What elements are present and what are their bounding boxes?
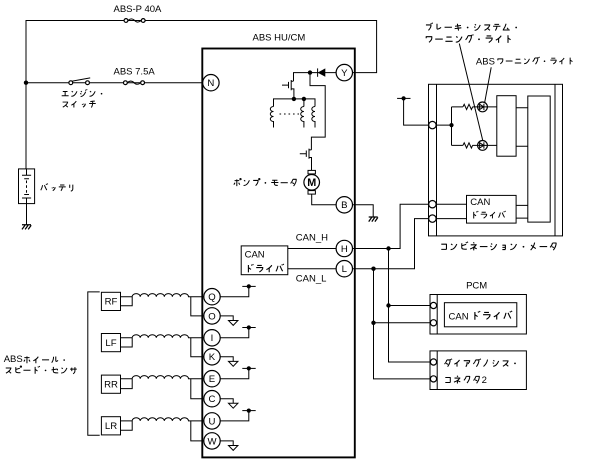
wire meter warn internal — [437, 107, 497, 145]
svg-text:ABS: ABS — [4, 354, 23, 365]
connector pin diag H — [430, 359, 436, 365]
svg-text:H: H — [341, 244, 348, 255]
svg-text:Y: Y — [341, 68, 348, 79]
label battery — [41, 183, 73, 191]
meter inner block 1 — [497, 96, 516, 157]
terminal L — [336, 261, 352, 277]
label combination meter — [441, 242, 556, 251]
ground battery — [22, 225, 31, 230]
wire E supply stub — [220, 368, 249, 378]
callout line brake warning — [459, 44, 483, 141]
connector pin meter warn feed — [429, 121, 436, 128]
fuse ABS 7.5A — [114, 67, 156, 85]
wire sensor RR leads — [121, 379, 133, 389]
wire battery to ground — [26, 204, 28, 225]
svg-text:ABS HU/CM: ABS HU/CM — [253, 33, 306, 44]
resistor ABS warn — [463, 143, 473, 148]
supply stub U — [242, 409, 255, 413]
PCM box — [430, 295, 526, 335]
supply stub I — [242, 325, 255, 329]
svg-text:K: K — [209, 352, 216, 363]
wire CAN_H — [288, 248, 336, 250]
wire B to ground — [353, 205, 374, 217]
wire Y to diode to node — [294, 73, 337, 150]
fuse ABS-P 40A — [114, 4, 163, 22]
sensor LR box — [101, 417, 120, 435]
terminal Q — [204, 289, 220, 305]
svg-text:CAN_L: CAN_L — [296, 274, 327, 285]
svg-text:I: I — [211, 333, 214, 344]
label diagnosis connector 2 — [445, 359, 516, 386]
label pump motor — [234, 178, 296, 186]
terminal N — [203, 75, 219, 91]
body ground arrow C — [229, 403, 238, 408]
lamp brake system warning light — [478, 141, 488, 151]
supply stub E — [242, 366, 255, 370]
wire CAN_L — [288, 268, 336, 270]
connector pin diag L — [430, 376, 436, 382]
terminal H — [336, 240, 352, 256]
wire O to body ground — [220, 316, 233, 321]
svg-text:LR: LR — [105, 421, 117, 432]
terminal W — [204, 433, 220, 449]
wire meter feed — [404, 98, 429, 125]
node PCM H — [386, 303, 390, 307]
node PCM L — [371, 321, 375, 325]
diode D1 — [318, 68, 326, 76]
resistor brake warn — [463, 104, 473, 109]
wire sensor LR leads — [121, 421, 133, 430]
ground B terminal — [369, 217, 378, 222]
svg-text:LF: LF — [105, 338, 116, 349]
ABS HU/CM box — [202, 49, 354, 458]
wire meter CAN wires — [437, 204, 528, 218]
svg-text:W: W — [207, 436, 217, 447]
diagnosis connector box — [430, 351, 526, 390]
node L branch — [371, 267, 375, 271]
CAN driver box meter — [467, 195, 517, 223]
sensor RR box — [101, 375, 120, 393]
wire C to body ground — [220, 399, 233, 404]
CAN driver box ABS — [241, 246, 288, 275]
svg-text:CAN: CAN — [245, 249, 265, 260]
terminal U — [204, 413, 220, 429]
wire ignition feed to N — [26, 82, 203, 84]
meter inner block 2 — [528, 96, 550, 222]
coil L3 solenoid valve — [312, 107, 315, 128]
node diode junction — [308, 70, 312, 74]
bracket sensors — [88, 292, 100, 435]
svg-text:U: U — [209, 416, 216, 427]
terminal Y — [336, 64, 352, 80]
supply stub meter feed — [397, 96, 410, 100]
svg-text:B: B — [341, 200, 347, 211]
terminal C — [204, 391, 220, 407]
svg-text:2: 2 — [482, 375, 487, 386]
motor M pump motor — [304, 170, 320, 194]
node bus J2 — [302, 97, 306, 101]
wire sensor LF twisted pair — [132, 335, 204, 357]
terminal E — [204, 371, 220, 387]
wire sensor LR twisted pair — [132, 418, 204, 441]
svg-text:E: E — [209, 374, 215, 385]
wire Q supply stub — [220, 286, 249, 296]
wire K to body ground — [220, 357, 233, 362]
label ABS wheel speed sensor — [4, 354, 77, 374]
wire block1 to block2 — [516, 108, 528, 147]
battery — [19, 169, 35, 204]
wire I supply stub — [220, 328, 249, 338]
body ground arrow O — [229, 321, 238, 326]
svg-text:ABS-P 40A: ABS-P 40A — [114, 4, 163, 15]
wire W to body ground — [220, 441, 233, 446]
coil L1 solenoid valve — [270, 107, 273, 128]
wire sensor RF leads — [121, 297, 133, 306]
svg-text:O: O — [208, 311, 215, 322]
svg-text:L: L — [342, 264, 348, 275]
wire H to PCM/diag — [389, 249, 431, 363]
supply stub Q — [242, 284, 255, 288]
terminal O — [204, 308, 220, 324]
body ground arrow W — [229, 446, 238, 451]
coil L2 solenoid valve — [301, 107, 304, 128]
node meter warn split — [449, 123, 453, 127]
connector pin meter CAN H — [429, 201, 436, 208]
sensor RF box — [101, 292, 120, 310]
connector pin meter CAN L — [429, 215, 436, 222]
node battery junction — [24, 81, 28, 85]
wire U supply stub — [220, 411, 249, 421]
lamp ABS warning light — [478, 102, 488, 112]
svg-text:ABS: ABS — [476, 56, 495, 67]
terminal I — [204, 330, 220, 346]
wire L to PCM/diag — [374, 269, 431, 379]
label brake system warning light — [426, 23, 517, 43]
sensor LF box — [101, 334, 120, 352]
label engine switch — [62, 89, 103, 107]
combination meter box — [429, 84, 563, 236]
connector pin PCM L — [430, 320, 436, 326]
wire solenoid bus — [274, 99, 316, 107]
svg-text:CAN: CAN — [470, 197, 490, 208]
wire dotted more-coils — [280, 113, 300, 115]
body ground arrow K — [229, 361, 238, 366]
svg-text:Q: Q — [208, 292, 215, 303]
label ABS warning light — [476, 56, 573, 67]
transistor Q2 motor driver — [300, 149, 312, 171]
svg-text:ABS 7.5A: ABS 7.5A — [114, 67, 156, 78]
connector pin PCM H — [430, 302, 436, 308]
wire sensor LF leads — [121, 338, 133, 347]
wire center coil feed — [303, 99, 305, 107]
callout line ABS warning — [485, 67, 492, 103]
switch engine switch — [69, 78, 90, 85]
svg-text:RR: RR — [104, 380, 118, 391]
svg-text:CAN: CAN — [449, 311, 469, 322]
terminal B — [336, 197, 352, 213]
CAN driver box PCM — [444, 303, 516, 327]
wire CAN L bus — [353, 219, 429, 269]
svg-text:C: C — [209, 394, 216, 405]
wire sensor RR twisted pair — [132, 376, 204, 399]
svg-text:PCM: PCM — [466, 280, 487, 291]
wire sensor RF twisted pair — [132, 294, 204, 316]
svg-text:CAN_H: CAN_H — [296, 232, 328, 243]
svg-text:M: M — [307, 177, 316, 189]
transistor Q1 solenoid driver — [282, 80, 294, 99]
node H branch — [386, 246, 390, 250]
wire battery B+ top rail to Y — [26, 21, 377, 170]
terminal K — [204, 349, 220, 365]
svg-text:RF: RF — [105, 297, 118, 308]
wire CAN H bus — [353, 204, 429, 248]
node bus J1 — [292, 97, 296, 101]
svg-text:N: N — [207, 78, 214, 89]
wire motor to B — [312, 194, 336, 205]
